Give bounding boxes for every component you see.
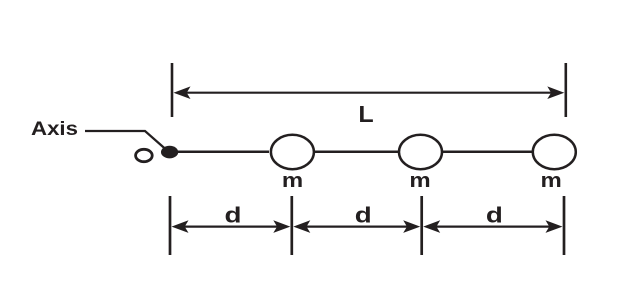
pivot dot O	[161, 146, 178, 159]
leader wire from Axis label to pivot	[85, 131, 166, 150]
rod segment pivot to mass 1	[176, 151, 269, 154]
svg-text:L: L	[358, 101, 373, 127]
svg-text:d: d	[355, 203, 372, 228]
bottom tick 2	[290, 196, 293, 255]
mass ball 3	[533, 135, 576, 169]
tick right of L dimension	[564, 63, 567, 117]
svg-text:d: d	[486, 203, 503, 228]
tick left of L dimension	[171, 63, 174, 117]
svg-text:m: m	[409, 169, 430, 192]
dimension line d2	[299, 226, 415, 228]
arrowhead d2 left	[293, 220, 310, 233]
arrowhead left of L	[174, 86, 191, 99]
arrowhead right of L	[547, 86, 564, 99]
bottom tick 3	[420, 196, 423, 255]
label O	[136, 149, 153, 161]
svg-text:Axis: Axis	[31, 118, 78, 140]
rod segment mass 1 to mass 2	[314, 151, 399, 154]
mass ball 1	[271, 135, 314, 169]
arrowhead d1 left	[172, 220, 189, 233]
svg-text:m: m	[541, 169, 562, 192]
rod segment mass 2 to mass 3	[442, 151, 533, 154]
dimension line d3	[429, 226, 557, 228]
bottom tick 4	[563, 196, 566, 255]
arrowhead d2 right	[403, 220, 420, 233]
svg-text:d: d	[225, 203, 242, 228]
arrowhead d1 right	[273, 220, 290, 233]
arrowhead d3 left	[423, 220, 440, 233]
bottom tick 1	[169, 196, 172, 255]
mass ball 2	[399, 135, 442, 169]
dimension line d1	[177, 226, 285, 228]
svg-text:m: m	[282, 169, 303, 192]
dimension line L	[180, 92, 558, 94]
arrowhead d3 right	[546, 220, 563, 233]
